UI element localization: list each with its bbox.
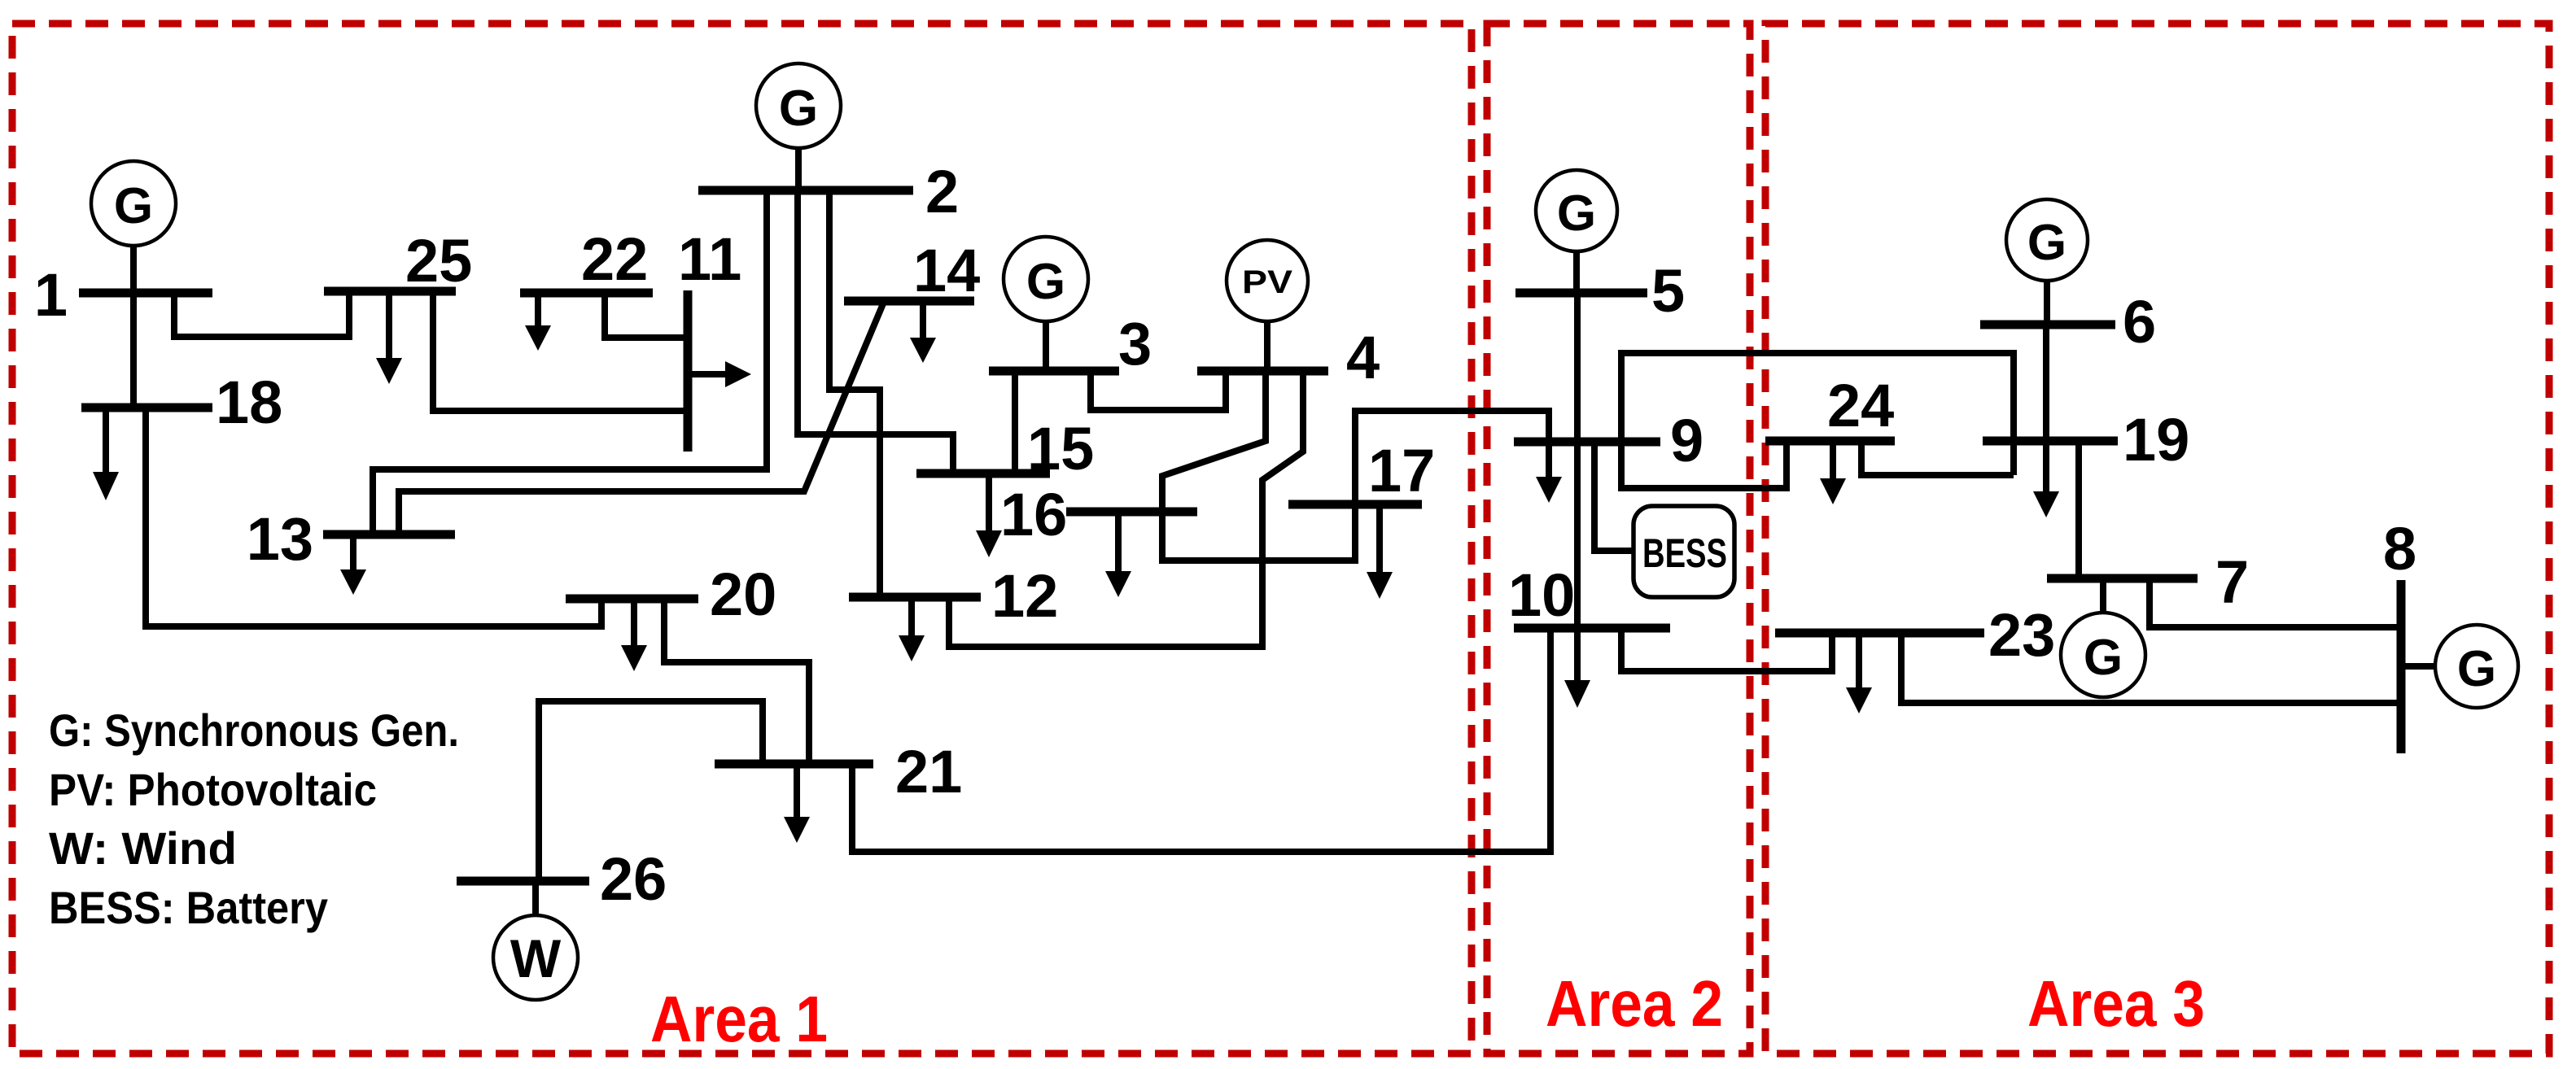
Area 2 boundary: [1487, 24, 1750, 1054]
svg-text:12: 12: [991, 562, 1058, 630]
wire 2-15: [798, 190, 953, 473]
svg-text:19: 19: [2123, 406, 2189, 473]
load arrow bus 14: [910, 301, 936, 363]
bus 7: [2047, 548, 2249, 616]
wire 7-8: [2150, 578, 2401, 627]
svg-text:17: 17: [1368, 437, 1435, 504]
generator G2 at bus 2: [756, 63, 841, 187]
svg-text:25: 25: [405, 227, 472, 295]
bus 2: [698, 158, 959, 225]
wire 6-19 with load arrow below bus 19: [2033, 325, 2059, 517]
wire 3-15: [1012, 371, 1018, 473]
bus 8 (vertical bar): [2383, 515, 2416, 753]
svg-text:22: 22: [581, 225, 648, 293]
load arrow bus 23: [1846, 633, 1872, 713]
wire 10-23: [1621, 628, 1832, 671]
wire 22-11: [605, 293, 688, 338]
bus 26: [457, 845, 667, 913]
bus 20: [566, 561, 776, 628]
bus 18: [81, 369, 282, 436]
wire 9-24: [1621, 441, 1787, 488]
wire 2-13: [373, 190, 767, 534]
generator G3 at bus 3: [1004, 237, 1088, 368]
svg-text:BESS: Battery: BESS: Battery: [49, 882, 328, 933]
bus 3: [989, 310, 1152, 377]
svg-text:G: G: [779, 81, 818, 137]
Area 1 boundary: [12, 24, 1472, 1054]
svg-text:9: 9: [1670, 407, 1703, 474]
wire 25-11: [433, 291, 688, 411]
wire 1-25: [174, 291, 349, 337]
wire 4-16: [1162, 371, 1266, 512]
svg-text:24: 24: [1827, 372, 1894, 439]
wire 20-21: [664, 599, 809, 764]
svg-text:10: 10: [1508, 561, 1575, 629]
wire 17-9: [1355, 411, 1549, 504]
generator G5 at bus 5: [1536, 170, 1617, 290]
wire 23-8: [1901, 633, 2401, 703]
bus 15: [916, 415, 1094, 482]
generator G8 at bus 8: [2404, 625, 2518, 708]
svg-text:6: 6: [2123, 288, 2156, 356]
load arrow bus 22: [525, 293, 551, 351]
bus 17: [1288, 437, 1435, 504]
svg-text:Area 3: Area 3: [2027, 967, 2205, 1040]
svg-text:13: 13: [247, 505, 313, 573]
Area 3 label: [2027, 967, 2205, 1040]
svg-text:21: 21: [895, 738, 962, 805]
svg-text:3: 3: [1118, 310, 1152, 377]
legend: [49, 705, 459, 933]
svg-text:G: G: [2084, 630, 2123, 686]
wire 13-14: [399, 302, 884, 534]
wire 5-9-10 with load arrow below bus 10: [1564, 293, 1590, 708]
load arrow bus 24: [1820, 441, 1846, 504]
svg-text:1: 1: [34, 261, 68, 329]
svg-text:BESS: BESS: [1642, 530, 1727, 576]
svg-text:18: 18: [216, 369, 282, 436]
load arrow bus 21: [784, 764, 810, 843]
svg-text:15: 15: [1027, 415, 1094, 482]
photovoltaic PV at bus 4: [1227, 240, 1308, 368]
BESS battery box: [1634, 506, 1734, 597]
bus 25: [324, 227, 472, 295]
wire 21-10: [852, 628, 1550, 852]
load arrow bus 20: [621, 599, 647, 671]
svg-text:2: 2: [925, 158, 959, 225]
load arrow bus 16: [1105, 512, 1131, 597]
svg-text:23: 23: [1988, 601, 2055, 669]
svg-text:G: G: [114, 178, 153, 234]
svg-text:G: G: [1557, 185, 1596, 242]
load arrow bus 25: [376, 291, 402, 384]
load arrow bus 17: [1367, 504, 1393, 599]
wire 4-12: [949, 371, 1303, 647]
Area 3 boundary: [1765, 24, 2549, 1054]
wire 21-26: [539, 701, 763, 881]
wind generator W at bus 26: [493, 884, 578, 1000]
svg-text:W: W: [510, 928, 562, 988]
svg-text:Area 1: Area 1: [650, 983, 828, 1055]
svg-text:7: 7: [2215, 548, 2249, 616]
Area 1 label: [650, 983, 828, 1055]
svg-text:8: 8: [2383, 515, 2416, 582]
bus 19: [1983, 406, 2189, 473]
svg-text:20: 20: [710, 561, 776, 628]
bus 4: [1197, 324, 1380, 391]
bus 24: [1765, 372, 1895, 441]
load arrow bus 12: [899, 597, 925, 661]
wire 1-18: [130, 293, 137, 408]
bus 12: [849, 562, 1058, 630]
svg-text:14: 14: [913, 237, 980, 304]
wire 9-19: [1621, 353, 2014, 475]
bus 16: [1000, 481, 1197, 548]
bus 1: [34, 261, 212, 329]
svg-text:G: G: [1026, 254, 1065, 310]
generator G1 at bus 1: [91, 161, 176, 290]
load arrow bus 13: [340, 534, 366, 595]
bus 23: [1775, 601, 2055, 669]
load arrow bus 9: [1536, 442, 1562, 503]
wire 2-12: [829, 190, 880, 597]
wire 9-BESS: [1594, 442, 1632, 551]
bus 10: [1508, 561, 1670, 629]
bus 14: [844, 237, 980, 304]
wire 19-7: [2075, 441, 2082, 578]
load arrow bus 18: [93, 408, 119, 500]
Area 2 label: [1546, 967, 1723, 1040]
svg-text:5: 5: [1651, 257, 1685, 325]
bus 9: [1514, 407, 1703, 474]
bus 5: [1515, 257, 1685, 325]
wire 18-20: [146, 408, 601, 626]
load arrow bus 11 (pointing right): [688, 361, 751, 387]
load arrow bus 15: [976, 473, 1002, 557]
bus 13: [247, 505, 455, 573]
wire 24-19: [1861, 441, 2014, 475]
svg-text:26: 26: [600, 845, 667, 913]
bus 6: [1980, 288, 2156, 356]
svg-text:4: 4: [1346, 324, 1380, 391]
svg-text:PV: PV: [1242, 264, 1292, 300]
generator G6 at bus 6: [2006, 199, 2088, 321]
svg-text:G: G: [2027, 215, 2066, 271]
svg-text:16: 16: [1000, 481, 1067, 548]
svg-text:11: 11: [678, 225, 741, 293]
svg-text:PV: Photovoltaic: PV: Photovoltaic: [49, 764, 377, 815]
svg-text:W: Wind: W: Wind: [49, 822, 237, 874]
svg-text:G: Synchronous Gen.: G: Synchronous Gen.: [49, 705, 459, 756]
bus 21: [715, 738, 962, 805]
wire 16-17: [1162, 504, 1355, 561]
wire 3-4: [1091, 371, 1226, 410]
svg-text:Area 2: Area 2: [1546, 967, 1723, 1040]
svg-text:G: G: [2457, 641, 2496, 697]
bus 22: [520, 225, 653, 293]
generator G7 at bus 7: [2061, 582, 2145, 697]
bus 11 (vertical bar): [678, 225, 741, 452]
